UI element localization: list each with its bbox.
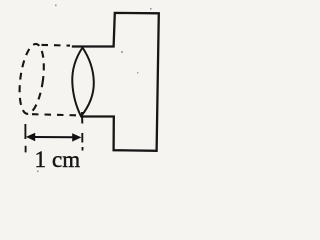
block (stepped slab)	[73, 13, 159, 151]
scan specks	[37, 5, 152, 173]
svg-text:cm: cm	[52, 147, 80, 172]
right extension dashed line	[81, 133, 83, 151]
lens (biconvex)	[72, 48, 94, 117]
dimension arrow (double headed)	[26, 133, 82, 142]
left extension dashed line	[24, 124, 26, 152]
cylinder end cap (dashed ellipse)	[16, 43, 48, 116]
lens bottom tick	[81, 112, 83, 124]
svg-text:1: 1	[35, 147, 47, 172]
cylinder top dashed line	[42, 44, 71, 47]
cylinder bottom dashed line	[32, 114, 76, 115]
